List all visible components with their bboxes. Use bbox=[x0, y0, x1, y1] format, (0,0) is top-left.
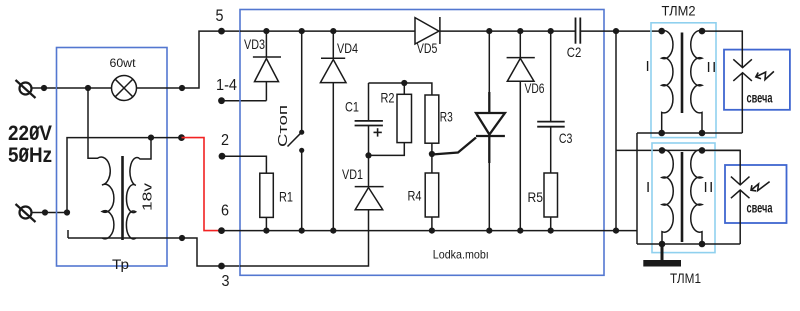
mains input terminal bottom bbox=[16, 204, 68, 222]
thyristor VS1 bbox=[432, 28, 505, 234]
CDI unit blue box bbox=[240, 10, 604, 276]
transformer TLM1 core bbox=[681, 152, 684, 242]
resistor R1 bbox=[222, 156, 273, 234]
wire common link vertical bbox=[636, 133, 638, 244]
capacitor C1 bbox=[355, 83, 383, 187]
svg-text:Тр: Тр bbox=[112, 256, 129, 272]
svg-text:3: 3 bbox=[222, 273, 230, 290]
spark plug box lower bbox=[702, 150, 787, 244]
resistor R5 bbox=[544, 173, 558, 234]
diode VD5 bbox=[415, 17, 440, 44]
svg-text:18v: 18v bbox=[140, 182, 155, 211]
transformer TLM2 winding II bbox=[691, 28, 706, 137]
bottom bus wire bbox=[222, 230, 638, 232]
ground bbox=[643, 244, 681, 267]
svg-text:VD3: VD3 bbox=[244, 36, 265, 52]
svg-text:Стоп: Стоп bbox=[275, 105, 290, 147]
transformer TLM2 winding I bbox=[658, 28, 673, 137]
diode VD1 bbox=[240, 187, 384, 266]
svg-text:R5: R5 bbox=[528, 189, 544, 205]
wire bottom common to terminal 3 bbox=[68, 230, 240, 266]
svg-text:VD5: VD5 bbox=[417, 40, 438, 56]
capacitor C3 bbox=[537, 28, 565, 173]
diode VD3 bbox=[253, 28, 281, 101]
svg-text:220V: 220V bbox=[8, 122, 52, 145]
svg-text:I: I bbox=[646, 58, 650, 75]
svg-text:R1: R1 bbox=[279, 189, 293, 205]
transformer TLM2 box bbox=[651, 23, 716, 138]
svg-text:R4: R4 bbox=[408, 188, 422, 204]
svg-text:VD1: VD1 bbox=[342, 166, 363, 182]
node bus junction right bbox=[613, 28, 619, 234]
diode VD6 bbox=[507, 28, 535, 234]
svg-text:1-4: 1-4 bbox=[216, 77, 237, 94]
svg-text:2: 2 bbox=[221, 132, 229, 149]
svg-text:R2: R2 bbox=[381, 90, 395, 106]
resistor R3 bbox=[404, 83, 439, 157]
transformer Tp core bbox=[121, 156, 124, 240]
transformer TLM1 box bbox=[652, 143, 715, 253]
svg-text:C3: C3 bbox=[559, 130, 573, 146]
svg-text:Lodka.mobı: Lodka.mobı bbox=[433, 248, 489, 262]
svg-text:50Hz: 50Hz bbox=[8, 144, 52, 167]
svg-text:5: 5 bbox=[216, 6, 224, 25]
svg-text:ТЛМ2: ТЛМ2 bbox=[662, 2, 696, 18]
svg-text:VD6: VD6 bbox=[525, 80, 545, 96]
wire TLM1 bottom rail bbox=[637, 241, 740, 248]
svg-text:C1: C1 bbox=[345, 99, 359, 115]
svg-text:свеча: свеча bbox=[747, 200, 773, 216]
transformer Tp primary winding bbox=[88, 88, 114, 239]
capacitor C2 bbox=[576, 18, 581, 44]
diode VD4 bbox=[320, 28, 346, 234]
top bus wire bbox=[240, 30, 662, 32]
spark gap lower bbox=[731, 177, 770, 199]
svg-text:II: II bbox=[704, 179, 715, 196]
power unit blue box bbox=[57, 48, 168, 267]
spark plug box upper bbox=[702, 31, 790, 133]
switch Cton bbox=[288, 28, 305, 234]
wire lamp to terminal 5 bbox=[85, 31, 240, 91]
wire TLM2 bottom rail bbox=[637, 132, 742, 134]
terminal 1-4 bbox=[218, 97, 266, 104]
transformer TLM1 winding I bbox=[662, 150, 673, 244]
wire neutral to secondary top bbox=[64, 134, 185, 215]
svg-text:R3: R3 bbox=[440, 109, 453, 125]
svg-text:VD4: VD4 bbox=[337, 40, 358, 56]
terminal 6 bbox=[218, 227, 225, 234]
svg-text:ТЛМ1: ТЛМ1 bbox=[670, 270, 701, 286]
terminal 3 bbox=[218, 263, 225, 270]
resistor R2 bbox=[369, 80, 412, 155]
label 220V 50Hz bbox=[8, 122, 52, 167]
spark gap upper bbox=[733, 59, 774, 81]
svg-text:60wt: 60wt bbox=[110, 56, 137, 70]
mains input terminal top bbox=[16, 80, 58, 98]
svg-text:свеча: свеча bbox=[747, 90, 773, 106]
red wire secondary to terminal 6 bbox=[182, 138, 222, 231]
wire TLM1 top rail bbox=[616, 147, 740, 154]
resistor R4 bbox=[425, 154, 439, 234]
transformer TLM2 core bbox=[681, 33, 684, 114]
lamp HL 60wt bbox=[57, 76, 137, 101]
terminal 2 bbox=[219, 153, 267, 160]
svg-text:C2: C2 bbox=[567, 44, 582, 60]
terminal 5 bbox=[218, 28, 225, 35]
transformer Tp secondary winding 18v bbox=[126, 138, 151, 239]
svg-text:6: 6 bbox=[221, 203, 229, 220]
svg-text:I: I bbox=[646, 179, 650, 196]
transformer TLM1 winding II bbox=[691, 150, 702, 244]
svg-text:II: II bbox=[707, 59, 718, 76]
